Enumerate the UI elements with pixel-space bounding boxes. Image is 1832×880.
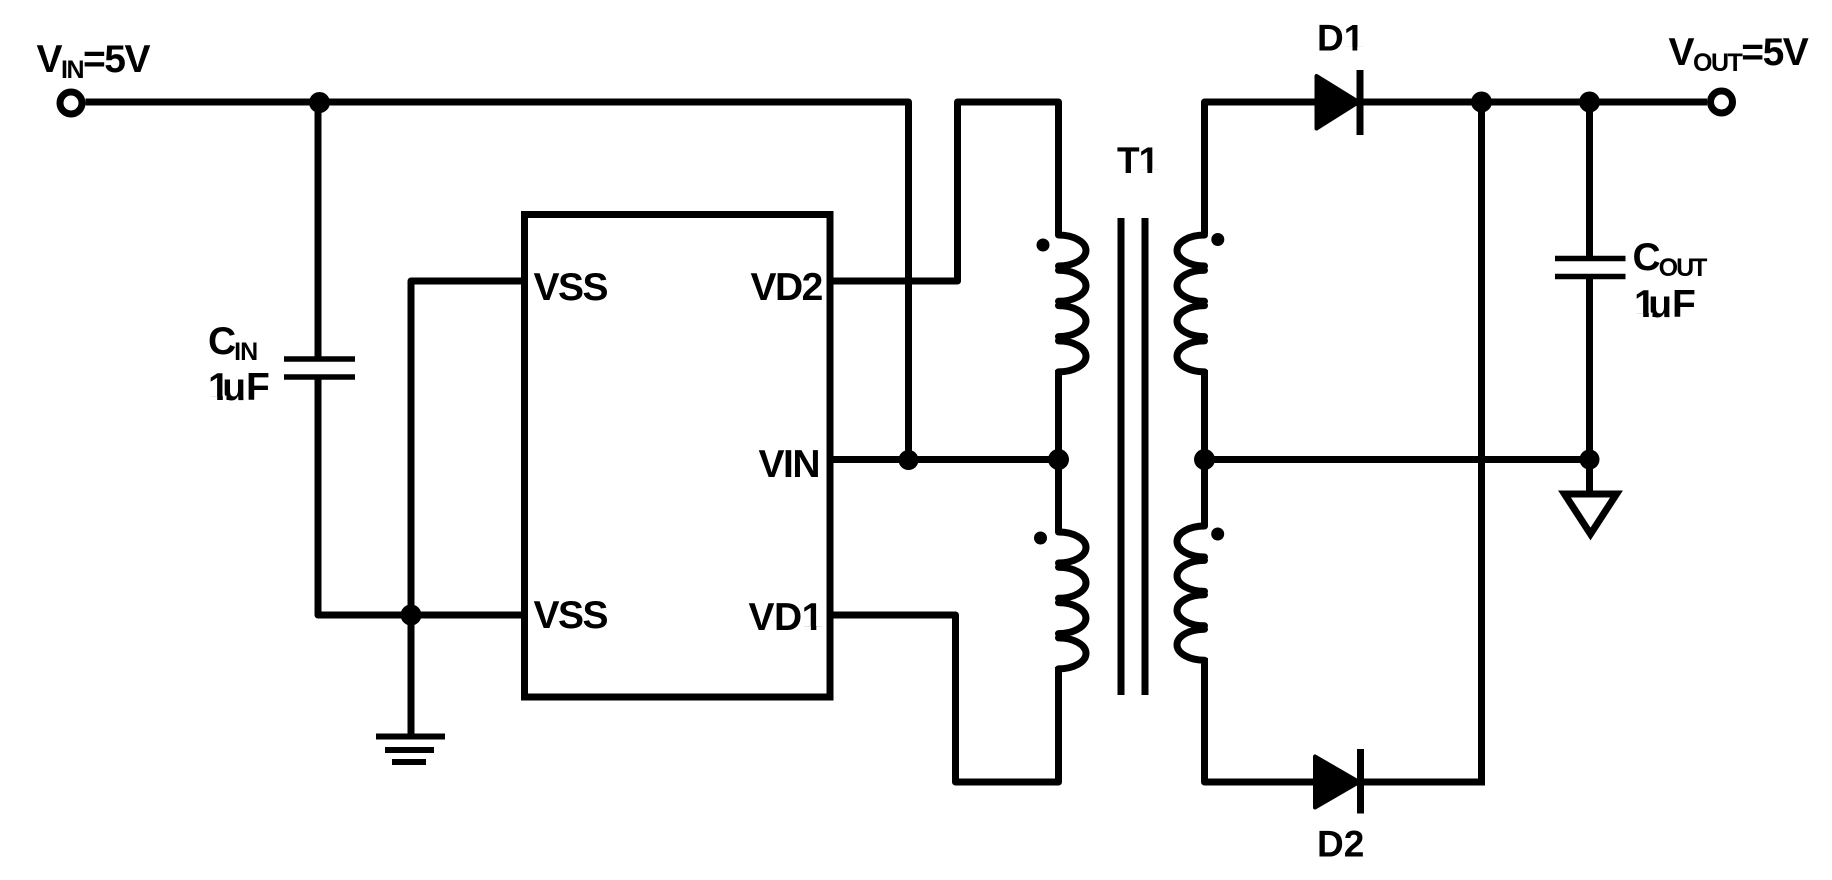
wire secondary lower winding down to D2 rail [1205, 658, 1482, 782]
transformer T1 secondary lower winding [1177, 526, 1205, 660]
node VIN input terminal [60, 92, 82, 114]
wire primary center tap down to lower winding [1055, 460, 1062, 533]
transformer T1 primary lower winding [1059, 532, 1087, 669]
svg-text:T1: T1 [1117, 140, 1159, 181]
junction node VIN rail [899, 450, 919, 470]
capacitor C_OUT plates [1555, 259, 1626, 277]
phase dot secondary upper [1211, 233, 1224, 246]
svg-text:D2: D2 [1317, 824, 1364, 865]
svg-text:1uF: 1uF [1634, 283, 1696, 326]
svg-text:VD2: VD2 [751, 266, 823, 309]
junction node D2 bus on output rail [1471, 92, 1492, 113]
phase dot secondary lower [1211, 528, 1224, 541]
white masks trimming digit-1 foot serifs to match original font [210, 47, 1653, 631]
wire top input rail from terminal to corner down to VIN node [86, 102, 909, 456]
wire secondary upper winding to center tap [1201, 370, 1208, 460]
svg-text:VIN: VIN [759, 443, 820, 486]
wire C_OUT bottom lead to secondary center tap rail [1586, 279, 1593, 460]
junction node primary center tap [1048, 449, 1069, 470]
svg-text:VD1: VD1 [749, 596, 823, 639]
diode D1 [1317, 70, 1361, 135]
wire VSS top pin to left vertical and down to ground [411, 281, 525, 734]
svg-text:VOUT=5V: VOUT=5V [1669, 31, 1809, 77]
phase dot primary lower [1034, 532, 1047, 545]
wire secondary center tap rail to ground stem [1205, 460, 1590, 492]
svg-text:VSS: VSS [534, 594, 608, 637]
svg-text:COUT: COUT [1633, 236, 1708, 282]
wire C_OUT top lead [1586, 102, 1593, 256]
svg-text:VIN=5V: VIN=5V [37, 38, 151, 84]
junction node C_OUT on output rail [1579, 92, 1600, 113]
wire VIN pin to primary center tap [830, 456, 1059, 463]
transformer T1 primary upper winding [1059, 235, 1087, 372]
wire C_IN top lead [315, 102, 322, 357]
ground symbol under VSS node [376, 737, 445, 763]
transformer T1 secondary upper winding [1177, 235, 1205, 372]
svg-text:1uF: 1uF [208, 366, 270, 409]
wire D1 and D2 cathode bus vertical [1478, 102, 1485, 786]
wire primary upper winding to center tap [1055, 370, 1062, 460]
capacitor C_IN plates [284, 359, 355, 377]
junction node VSS ground [401, 605, 422, 626]
wire VD1 pin over and down to primary bottom [830, 615, 1059, 782]
wire secondary center tap to lower winding [1201, 460, 1208, 527]
svg-text:CIN: CIN [208, 320, 257, 366]
wire C_IN bottom lead to VSS rail [318, 380, 525, 616]
junction node C_OUT bottom to ground [1580, 450, 1600, 470]
node VOUT output terminal [1711, 91, 1733, 113]
svg-text:D1: D1 [1317, 18, 1364, 59]
svg-text:VSS: VSS [534, 266, 608, 309]
diode D2 [1315, 749, 1361, 814]
phase dot primary upper [1037, 239, 1050, 252]
junction node secondary center tap [1194, 449, 1215, 470]
junction node on input rail at C_IN [309, 92, 330, 113]
transformer T1 core [1118, 218, 1125, 695]
IC U1 DC-DC converter box [525, 215, 831, 698]
wire VD2 pin up and over to primary top [830, 102, 1059, 281]
ground symbol triangle on secondary [1565, 494, 1617, 534]
wire secondary top lead [1205, 102, 1708, 234]
